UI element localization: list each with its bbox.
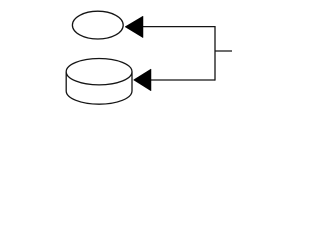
arrowhead into cylinder xyxy=(134,69,152,91)
arrowhead into oval xyxy=(125,16,143,38)
cylinder (data store) xyxy=(66,58,132,104)
wire top horizontal xyxy=(142,26,215,28)
oval node xyxy=(72,11,123,39)
wire vertical bus xyxy=(214,26,216,81)
wire bottom horizontal xyxy=(150,79,215,81)
wire right stub xyxy=(215,50,232,52)
